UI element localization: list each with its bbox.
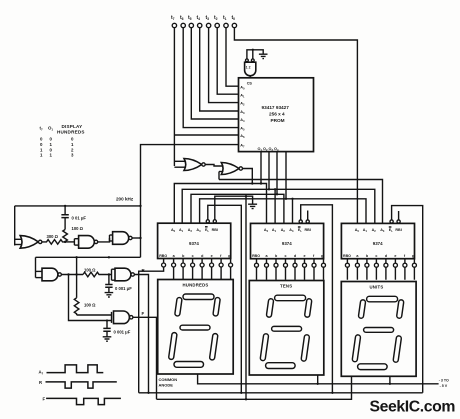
svg-text:CS: CS xyxy=(247,82,253,86)
wire node to gate2 xyxy=(65,239,79,245)
svg-text:RBI: RBI xyxy=(305,228,311,232)
svg-text:RBO: RBO xyxy=(252,254,260,258)
wire t3 to A2 xyxy=(209,28,239,103)
waveform R xyxy=(39,380,117,388)
pin A7 xyxy=(240,143,245,148)
svg-text:9374: 9374 xyxy=(373,241,383,246)
wire gate2 to gate3 xyxy=(98,238,110,242)
wire cross couple a xyxy=(76,257,78,298)
PROM U1 93417 93427 xyxy=(239,78,314,152)
pin A3 xyxy=(240,110,245,115)
pins O1 O2 O3 O4 xyxy=(258,147,280,152)
svg-text:200 kHz: 200 kHz xyxy=(116,197,134,202)
ground F xyxy=(103,337,112,341)
wire units anode stub xyxy=(389,376,391,384)
wire F input a xyxy=(77,314,112,316)
svg-text:e: e xyxy=(394,254,396,258)
svg-text:RBI: RBI xyxy=(212,228,218,232)
display DS2 tens xyxy=(249,281,323,376)
wire bus line 1 xyxy=(219,180,383,224)
decoder U8 9374 units xyxy=(341,220,416,280)
label -3 to -5 v xyxy=(439,379,449,389)
svg-text:g: g xyxy=(412,254,414,258)
svg-text:UNITS: UNITS xyxy=(370,284,384,289)
wire O3 output xyxy=(276,152,278,196)
wire oscillator feedback left xyxy=(14,206,16,246)
svg-text:COMMON: COMMON xyxy=(159,377,178,382)
truth table display hundreds xyxy=(40,124,85,158)
svg-text:R: R xyxy=(39,380,42,385)
wire chip3 RBI stub xyxy=(398,211,400,220)
svg-text:9374: 9374 xyxy=(282,241,292,246)
waveform F xyxy=(43,396,121,404)
node t4 xyxy=(197,15,202,28)
svg-text:e: e xyxy=(304,254,306,258)
svg-text:100 Ω: 100 Ω xyxy=(84,302,96,307)
wire strobe riser gap1b xyxy=(245,196,247,399)
digit units xyxy=(352,296,404,369)
svg-text:1 2: 1 2 xyxy=(246,65,251,69)
gate U3A NOR xyxy=(174,159,205,171)
gate U4A NOR xyxy=(15,236,42,249)
svg-text:HUNDREDS: HUNDREDS xyxy=(183,282,209,287)
waveform A7 xyxy=(39,365,104,376)
wire R strobe bus xyxy=(139,392,423,394)
ground at CS gate xyxy=(259,54,268,58)
gate U4B NAND xyxy=(79,236,98,249)
wire t6 to A5 xyxy=(183,28,238,128)
wire cross couple b xyxy=(67,273,111,320)
wire t2 to A1 xyxy=(217,28,238,95)
svg-text:- 5 V: - 5 V xyxy=(440,384,448,388)
wire O2 output xyxy=(268,152,270,191)
capacitor 0.001 uF F xyxy=(103,319,130,336)
wire RBO hundreds xyxy=(139,267,164,393)
svg-text:93417 93427: 93417 93427 xyxy=(262,105,290,110)
resistor 100 ohm vertical osc xyxy=(63,226,84,242)
gate CS AND U2 xyxy=(245,49,264,78)
node t2 xyxy=(214,15,219,28)
wire cap R node xyxy=(108,275,110,285)
pin A1 xyxy=(240,93,245,98)
svg-text:ANODE: ANODE xyxy=(159,382,174,387)
svg-text:RBO: RBO xyxy=(343,254,351,258)
svg-text:- 3 TO: - 3 TO xyxy=(439,379,449,383)
node t7 xyxy=(171,15,177,28)
resistor 100 ohm R xyxy=(61,267,111,277)
capacitor 0.01 uF xyxy=(61,206,86,230)
svg-text:0 001 μF: 0 001 μF xyxy=(114,330,131,335)
svg-text:PROM: PROM xyxy=(271,118,285,123)
wire F output xyxy=(133,317,157,399)
wire tens anode stub xyxy=(317,375,319,384)
pin A4 xyxy=(240,118,245,123)
svg-text:100 Ω: 100 Ω xyxy=(72,226,84,231)
svg-text:RBI: RBI xyxy=(395,228,401,232)
wire bus line 2 xyxy=(174,184,266,224)
wire t0 to units A0 xyxy=(234,28,357,224)
wire bus line 3 xyxy=(182,188,375,223)
label 200 kHz xyxy=(116,197,134,202)
wire R output xyxy=(134,275,149,394)
svg-text:0 001 μF: 0 001 μF xyxy=(115,286,132,291)
wire chip2 A1 riser xyxy=(274,189,276,223)
display DS3 units xyxy=(341,282,416,377)
svg-text:g: g xyxy=(321,254,323,258)
svg-text:c: c xyxy=(192,254,194,258)
svg-text:c: c xyxy=(285,254,287,258)
resistor 100 ohm F xyxy=(74,298,96,315)
pin A6 xyxy=(240,134,245,139)
wire t1 to A0 xyxy=(226,28,239,86)
wire O4 output xyxy=(285,152,287,200)
svg-text:256 x 4: 256 x 4 xyxy=(269,111,285,116)
resistor 300 ohm xyxy=(42,234,66,244)
node t3 xyxy=(206,15,211,28)
svg-text:9374: 9374 xyxy=(189,241,199,246)
decoder U7 9374 tens xyxy=(251,220,326,280)
wire chip2 EL bracket xyxy=(301,205,334,394)
digit hundreds xyxy=(168,294,220,367)
svg-text:e: e xyxy=(211,254,213,258)
wire gate4 input drop xyxy=(36,257,43,277)
svg-text:HUNDREDS: HUNDREDS xyxy=(57,130,85,135)
svg-text:TENS: TENS xyxy=(280,283,292,288)
wire F strobe bus xyxy=(157,377,352,401)
wire t4 to A3 xyxy=(200,28,239,111)
node t5 xyxy=(188,15,194,28)
wire bus line 4 xyxy=(191,194,284,223)
node t0 xyxy=(232,15,237,28)
ground R xyxy=(105,293,114,297)
gate U5A NAND xyxy=(42,268,61,281)
label common anode xyxy=(159,377,178,387)
wire gate B output loop xyxy=(243,169,254,185)
wire O1 output xyxy=(260,152,262,185)
svg-text:DISPLAY: DISPLAY xyxy=(62,124,83,129)
gate U5B NAND R xyxy=(112,268,146,281)
wire bus line 5 xyxy=(200,198,366,224)
wire RBI ground line xyxy=(215,195,253,220)
node t1 xyxy=(223,15,228,28)
capacitor 0.001 uF R xyxy=(105,285,132,293)
svg-text:F: F xyxy=(43,396,46,401)
svg-text:F: F xyxy=(142,311,145,316)
wire chip1 EL bracket xyxy=(208,205,242,392)
decoder U6 9374 hundreds xyxy=(158,220,233,280)
ground mid xyxy=(248,204,257,208)
svg-text:RBO: RBO xyxy=(159,254,167,258)
wire chip2 RBI stub xyxy=(307,211,309,220)
digit tens xyxy=(260,295,312,368)
pin A5 xyxy=(240,127,245,132)
gate U4C NAND xyxy=(110,232,142,245)
pin A0 xyxy=(240,85,245,90)
node t6 xyxy=(180,15,185,28)
display DS1 hundreds xyxy=(158,280,234,375)
wire oscillator top rail xyxy=(15,205,142,207)
wire t7 to A6 and gate xyxy=(174,28,238,166)
gate U5C NAND F xyxy=(112,311,145,324)
pin A2 xyxy=(240,102,245,107)
svg-text:0 01 μF: 0 01 μF xyxy=(72,215,87,220)
svg-text:SeekIC.com: SeekIC.com xyxy=(370,399,456,416)
svg-text:100 Ω: 100 Ω xyxy=(84,267,96,272)
gate U3B NOR xyxy=(205,163,242,180)
wire t5 to A4 xyxy=(191,28,238,119)
svg-text:c: c xyxy=(375,254,377,258)
svg-text:300 Ω: 300 Ω xyxy=(47,234,59,239)
wire divider feed line xyxy=(36,256,141,258)
wire chip3 EL bracket xyxy=(392,206,423,393)
wire A7 line from oscillator xyxy=(141,145,239,258)
watermark seekic xyxy=(370,399,456,416)
wire anode supply bus xyxy=(198,374,439,385)
wire chip2 A3 riser xyxy=(292,199,294,223)
svg-text:g: g xyxy=(228,254,230,258)
